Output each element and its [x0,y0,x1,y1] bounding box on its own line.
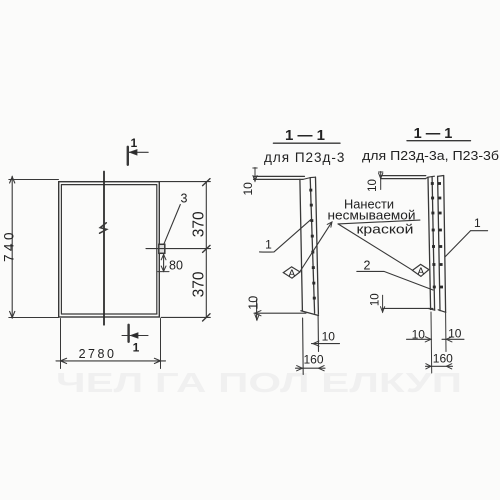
section1 dim 10 line [312,343,340,345]
svg-text:10: 10 [367,179,379,192]
svg-text:160: 160 [303,353,323,367]
svg-text:370: 370 [190,271,207,297]
label 1 right leader [445,231,488,257]
note text underline [338,220,420,224]
section1 bottom-left dim line + ext + arrow [254,312,306,314]
dim 2780: extension lines [61,319,161,369]
svg-text:несмываемой: несмываемой [328,208,416,223]
section2 dim 160 [426,365,453,367]
section1 lower extension lines [303,316,319,375]
svg-text:А: А [288,268,295,279]
dim line 370/370 [205,182,207,318]
diamond mark A (section2) [412,264,429,276]
section2 plate B top/bottom caps [438,176,446,313]
section mark 1 (top) [127,147,129,165]
label 1 leader (section1) [260,219,312,252]
leader to label 3 [164,205,180,244]
section1 bar flange lines [310,177,318,314]
svg-text:1 — 1: 1 — 1 [285,127,325,144]
svg-text:10: 10 [448,327,462,341]
svg-text:1: 1 [130,136,137,150]
panel outline (front view) outer rectangle [59,182,160,317]
dim 80: vertical line + arrows + lower extension [163,254,165,271]
section2 top-left ext + arrow [379,172,383,190]
svg-text:1: 1 [474,216,481,230]
svg-text:740: 740 [2,229,17,262]
panel outline inner double lines [61,185,157,314]
centerline of panel (joint line) [103,172,105,325]
svg-text:80: 80 [169,258,183,272]
svg-text:1 — 1: 1 — 1 [414,126,453,142]
svg-text:10: 10 [241,182,255,196]
dim 2780: arrowheads [61,358,161,363]
label 2 leader [357,271,433,290]
svg-text:10: 10 [412,328,426,342]
svg-text:ЧЕЛ ГА ПОЛ ЕЛКУП: ЧЕЛ ГА ПОЛ ЕЛКУП [56,367,462,398]
section2 top edge double line [381,176,426,179]
leader from text to diamond A1 [300,223,332,272]
top extension line right (370 chain) [160,181,211,183]
break mark on centerline [100,223,107,233]
370 chain arrow ticks [203,179,210,321]
section2 anchor dots plate A [431,182,436,288]
svg-text:1: 1 [265,238,272,252]
leader to diamond A2 [338,224,413,270]
svg-text:370: 370 [190,211,207,237]
svg-text:1: 1 [133,341,140,355]
svg-text:10: 10 [322,329,336,343]
mid extension line (plate level) [146,248,211,250]
svg-text:краской: краской [357,222,414,237]
dim 740: dimension line [11,176,13,318]
header underline 1 [273,142,340,144]
section2 bottom-left dim line [383,307,433,309]
diamond mark A (section1) [283,267,300,278]
svg-text:А: А [417,266,424,277]
dim 740: arrowheads [10,177,15,318]
dim 740: extension lines [9,180,59,318]
svg-text:10: 10 [370,293,382,306]
section2 plate B lines [438,176,446,312]
section2 dim 10 right [442,338,464,340]
svg-text:2: 2 [364,259,371,273]
section1 top-left ext + arrow [253,168,257,182]
section1 bottom edge slant [301,311,319,316]
watermark band [56,367,462,398]
section1 bar web line [300,179,303,310]
section2 dim 10 left [407,338,432,340]
svg-text:для П23д-3а, П23-3б: для П23д-3а, П23-3б [362,148,499,163]
section2 lower extension lines [431,312,446,373]
svg-text:для П23д-3: для П23д-3 [264,150,345,165]
section mark 1 (bottom) [127,325,129,342]
section1 top edge double line [254,176,305,179]
svg-text:2780: 2780 [79,347,117,361]
svg-text:10: 10 [247,296,261,310]
section2 plate A lines [428,177,435,310]
section1 dim 160 line [296,367,326,369]
svg-text:160: 160 [433,352,453,366]
section2 anchor dots plate B [438,182,443,288]
svg-text:3: 3 [181,191,188,205]
dim 2780: dimension line [56,360,166,362]
embed plate (item 3) on right edge [159,244,165,253]
section2 plate A top/bottom caps [428,176,435,310]
header underline 2 [407,140,471,142]
section1 anchor dots [309,189,316,300]
